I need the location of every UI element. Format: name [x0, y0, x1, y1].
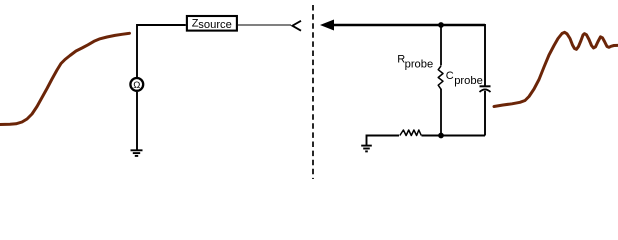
- source V1 (sine source circle): [130, 78, 143, 91]
- node (junction dot top): [438, 22, 444, 28]
- svg-text:source: source: [198, 19, 232, 31]
- svg-text:Ω: Ω: [133, 80, 140, 91]
- ground (left): [131, 150, 143, 156]
- svg-text:probe: probe: [454, 75, 483, 87]
- ground (right): [361, 146, 372, 152]
- arrow (pointing left at probe): [320, 20, 334, 31]
- wire (top wire corner down to Cprobe): [484, 24, 486, 86]
- wire (source bottom to ground): [136, 92, 138, 150]
- wire (source top node to Z box): [137, 25, 186, 78]
- wire (resistor to bottom node to Cprobe bottom): [422, 135, 486, 137]
- output waveform (rising edge with ringing, right): [494, 32, 618, 106]
- wire (top node down to Rprobe): [440, 25, 442, 66]
- input waveform (clean rising edge, left): [0, 33, 130, 124]
- svg-text:C: C: [446, 70, 454, 82]
- wire (Rprobe bottom to bottom node): [440, 89, 442, 136]
- capacitor Cprobe (flat + curved plate): [480, 85, 491, 87]
- node (junction dot bottom): [438, 133, 444, 139]
- wire (arrow shaft / top node to C branch): [333, 24, 485, 26]
- resistor Rprobe (vertical zigzag): [438, 66, 443, 89]
- impedance Zsource box: [187, 16, 237, 31]
- dashed boundary line: [312, 5, 314, 179]
- resistor (horizontal zigzag, ground lead): [400, 130, 422, 136]
- wire (Cprobe bottom to bottom wire): [484, 91, 486, 136]
- wire (Z box to probe tip): [238, 24, 291, 26]
- wire (ground corner to resistor): [367, 136, 400, 146]
- svg-text:probe: probe: [405, 59, 434, 71]
- probe tip (open < connector): [292, 21, 301, 31]
